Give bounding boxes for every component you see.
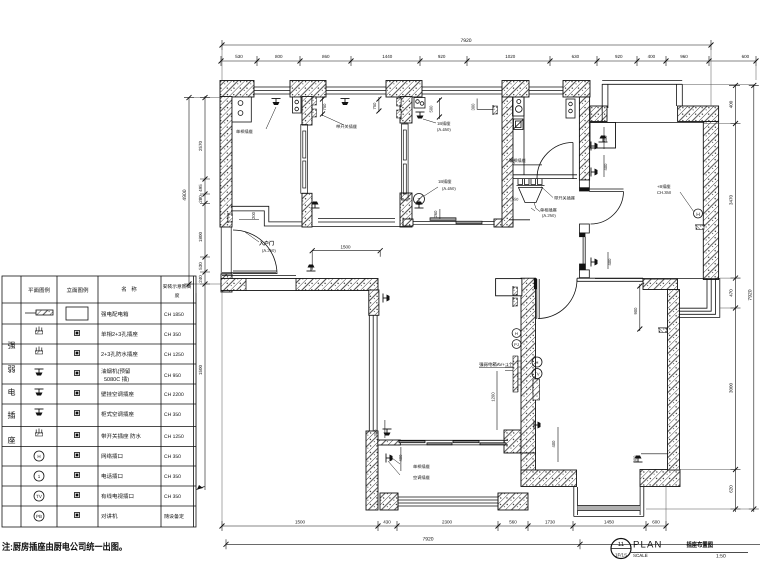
svg-text:安装示意图高: 安装示意图高 — [163, 283, 192, 290]
svg-text:CH 350: CH 350 — [164, 494, 181, 500]
svg-text:860: 860 — [322, 54, 330, 59]
svg-text:920: 920 — [438, 54, 446, 59]
svg-text:壁挂空调插座: 壁挂空调插座 — [101, 391, 135, 398]
svg-text:CH 1250: CH 1250 — [164, 434, 184, 440]
svg-text:1800: 1800 — [198, 231, 203, 242]
svg-text:1440: 1440 — [382, 54, 393, 59]
svg-text:960: 960 — [680, 54, 688, 59]
svg-text:400: 400 — [648, 54, 656, 59]
svg-text:(A.250): (A.250) — [542, 213, 556, 218]
svg-text:920: 920 — [615, 54, 623, 59]
svg-text:度: 度 — [175, 292, 180, 299]
svg-text:400: 400 — [398, 454, 403, 462]
svg-text:1730: 1730 — [545, 520, 556, 525]
svg-text:530: 530 — [235, 54, 243, 59]
svg-text:SCALE: SCALE — [633, 553, 648, 558]
svg-text:400: 400 — [729, 100, 734, 108]
svg-text:240: 240 — [198, 275, 203, 283]
svg-text:2570: 2570 — [198, 140, 203, 151]
svg-text:495: 495 — [198, 184, 203, 192]
svg-text:强: 强 — [8, 341, 16, 350]
svg-text:带开关插座: 带开关插座 — [554, 196, 575, 201]
svg-text:400: 400 — [551, 440, 556, 448]
svg-text:电: 电 — [8, 388, 16, 397]
svg-text:带开关插座: 带开关插座 — [336, 124, 357, 129]
svg-text:PJ: PJ — [514, 342, 519, 347]
svg-text:1B插座: 1B插座 — [438, 179, 452, 184]
svg-text:(A.450): (A.450) — [437, 127, 451, 132]
svg-text:CH 350: CH 350 — [164, 474, 181, 480]
svg-text:CH 950: CH 950 — [164, 373, 181, 379]
svg-text:空调插座: 空调插座 — [413, 475, 430, 480]
svg-text:5080C 插): 5080C 插) — [104, 376, 129, 383]
svg-text:强电配电箱: 强电配电箱 — [101, 311, 129, 318]
svg-text:2300: 2300 — [442, 520, 453, 525]
svg-text:600: 600 — [742, 54, 750, 59]
svg-text:CH 2200: CH 2200 — [164, 392, 184, 398]
svg-text:对讲机: 对讲机 — [101, 513, 118, 520]
svg-text:1:50: 1:50 — [716, 554, 726, 560]
svg-text:260: 260 — [433, 210, 438, 218]
svg-text:CH 350: CH 350 — [164, 332, 181, 338]
svg-text:400: 400 — [607, 258, 612, 266]
svg-text:CH 350: CH 350 — [164, 454, 181, 460]
svg-text:PLAN: PLAN — [633, 540, 663, 551]
svg-text:1500: 1500 — [340, 245, 351, 250]
svg-text:3470: 3470 — [729, 194, 734, 205]
svg-text:400: 400 — [603, 163, 608, 171]
svg-text:H: H — [536, 360, 539, 365]
svg-text:插座布置图: 插座布置图 — [687, 541, 714, 549]
svg-text:CH 350: CH 350 — [164, 412, 181, 418]
svg-text:800: 800 — [275, 54, 283, 59]
svg-text:有线电视插口: 有线电视插口 — [101, 493, 134, 500]
svg-text:400: 400 — [603, 135, 608, 143]
svg-text:560: 560 — [509, 520, 517, 525]
svg-text:随设备定: 随设备定 — [164, 513, 184, 520]
svg-text:550: 550 — [512, 198, 518, 202]
svg-text:入户门: 入户门 — [259, 240, 274, 247]
svg-text:500: 500 — [429, 105, 434, 113]
svg-text:1020: 1020 — [505, 54, 516, 59]
svg-text:+B插座: +B插座 — [657, 184, 671, 189]
svg-text:1B插座: 1B插座 — [437, 121, 451, 126]
svg-text:7920: 7920 — [460, 38, 471, 44]
svg-text:注:厨房插座由厨电公司统一出图。: 注:厨房插座由厨电公司统一出图。 — [2, 541, 127, 553]
svg-text:900: 900 — [633, 307, 638, 315]
svg-text:200: 200 — [251, 211, 256, 219]
svg-text:7920: 7920 — [748, 289, 754, 300]
svg-text:TV: TV — [534, 372, 539, 377]
svg-text:平面图例: 平面图例 — [28, 287, 51, 294]
svg-text:CH.350: CH.350 — [657, 190, 672, 195]
svg-text:CH 1850: CH 1850 — [164, 312, 184, 318]
svg-text:柜式空调插座: 柜式空调插座 — [101, 411, 135, 418]
svg-text:2+3孔防水插座: 2+3孔防水插座 — [101, 351, 138, 358]
svg-text:600: 600 — [652, 520, 660, 525]
svg-text:名 称: 名 称 — [121, 286, 137, 293]
svg-text:280: 280 — [198, 195, 203, 203]
svg-text:430: 430 — [383, 520, 391, 525]
svg-text:530: 530 — [198, 262, 203, 270]
svg-text:1450: 1450 — [604, 520, 615, 525]
svg-text:1500: 1500 — [295, 520, 306, 525]
svg-text:1F/1S: 1F/1S — [615, 553, 627, 558]
svg-text:TV: TV — [36, 494, 42, 499]
svg-text:11: 11 — [618, 541, 625, 548]
svg-text:油烟机(预留: 油烟机(预留 — [101, 368, 131, 375]
svg-text:座: 座 — [8, 436, 16, 445]
svg-text:300: 300 — [373, 429, 378, 437]
svg-text:带开关插座 防水: 带开关插座 防水 — [101, 433, 142, 440]
svg-text:H: H — [696, 212, 700, 218]
svg-text:4900: 4900 — [182, 189, 188, 200]
svg-text:强弱电箱AV+:1个: 强弱电箱AV+:1个 — [479, 362, 514, 367]
svg-text:750: 750 — [322, 103, 327, 111]
svg-text:(A.250): (A.250) — [262, 248, 276, 253]
svg-text:电话插口: 电话插口 — [101, 473, 123, 480]
svg-text:1500: 1500 — [198, 364, 203, 375]
svg-text:(A.450): (A.450) — [442, 186, 456, 191]
svg-text:1200: 1200 — [491, 392, 496, 402]
svg-text:单相插座: 单相插座 — [413, 464, 430, 469]
svg-text:立面图例: 立面图例 — [66, 287, 89, 294]
svg-text:H: H — [515, 331, 518, 336]
svg-text:620: 620 — [729, 485, 734, 493]
svg-text:3000: 3000 — [729, 382, 734, 393]
svg-text:单相插座: 单相插座 — [540, 208, 557, 213]
svg-text:单相2+3孔插座: 单相2+3孔插座 — [101, 331, 138, 338]
svg-text:300: 300 — [471, 103, 476, 111]
svg-text:弱: 弱 — [8, 365, 16, 374]
svg-text:7920: 7920 — [422, 537, 433, 543]
svg-text:H: H — [37, 454, 40, 459]
svg-text:470: 470 — [729, 289, 734, 297]
svg-text:750: 750 — [372, 102, 377, 110]
svg-text:单相插座: 单相插座 — [236, 129, 253, 134]
svg-text:CH 1250: CH 1250 — [164, 352, 184, 358]
svg-text:插: 插 — [8, 411, 16, 420]
svg-text:PB: PB — [36, 514, 42, 519]
svg-text:网络插口: 网络插口 — [101, 453, 123, 460]
svg-text:630: 630 — [572, 54, 580, 59]
